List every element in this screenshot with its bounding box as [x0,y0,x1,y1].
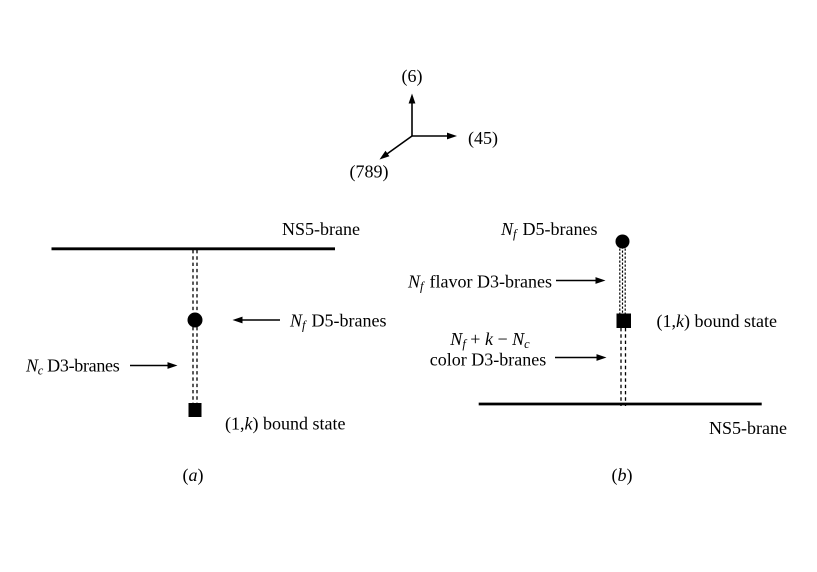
axis label (6) [402,66,423,87]
svg-text:(45): (45) [468,128,498,149]
svg-text:(a): (a) [183,465,204,486]
Nc D3-branes dashed lines upper segment (a) [193,250,197,313]
label Nc D3-branes (a) [25,356,120,378]
svg-text:Nf + k − Nc: Nf + k − Nc [449,329,530,351]
Nf flavor D3-branes dashed lines (b) [620,249,625,314]
label NS5-brane (a) [282,219,360,239]
label Nf + k - Nc (b) [449,329,530,351]
caption (a) [183,465,204,486]
Nf D5-branes circle (a) [188,313,203,328]
label Nf flavor D3-branes (b) [407,272,552,294]
label NS5-brane (b) [709,418,787,438]
NS5-brane line (a) [52,247,336,250]
axis label (789) [350,162,389,183]
(1,k) bound state square (a) [189,403,202,417]
svg-text:(1,k) bound state: (1,k) bound state [225,414,345,435]
Nf D5-branes circle (b) [616,235,630,249]
Nc D3-branes dashed lines lower segment (a) [193,327,197,403]
axis (45) horizontal arrow [412,133,457,140]
NS5-brane line (b) [479,403,762,406]
svg-text:(1,k) bound state: (1,k) bound state [657,311,777,332]
label color D3-branes (b) [430,350,546,370]
label Nf D5-branes (a) [289,311,386,333]
label Nf D5-branes (b) [500,219,597,241]
svg-text:(b): (b) [612,465,633,486]
label (1,k) bound state (a) [225,414,345,435]
axis (6) vertical arrow [409,94,416,137]
svg-text:NS5-brane: NS5-brane [709,418,787,438]
arrow from color D3-branes label (b) [555,354,607,361]
svg-text:(789): (789) [350,162,389,183]
arrow to Nf D5-branes (a) [233,317,281,324]
arrow from Nc D3-branes label (a) [130,362,178,369]
arrow from Nf flavor D3-branes label (b) [556,277,606,284]
axes origin [0,0,1,1]
axis label (45) [468,128,498,149]
caption (b) [612,465,633,486]
axis (789) diagonal arrow [380,136,413,160]
label (1,k) bound state (b) [657,311,777,332]
color D3-branes dashed lines (b) [621,328,626,406]
(1,k) bound state square (b) [617,314,632,329]
svg-text:(6): (6) [402,66,423,87]
svg-text:Nf flavor D3-branes: Nf flavor D3-branes [407,272,552,294]
svg-text:NS5-brane: NS5-brane [282,219,360,239]
svg-text:color D3-branes: color D3-branes [430,350,546,370]
